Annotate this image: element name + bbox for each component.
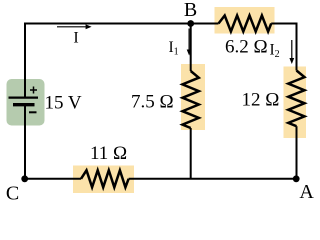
resistor R1 6.2ohm zigzag: [219, 16, 272, 32]
resistor R4 11ohm zigzag: [81, 170, 129, 187]
wire left bottom: node C up to battery - terminal: [24, 105, 26, 179]
svg-text:B: B: [184, 0, 197, 21]
wire R3 bottom lead to node A: [296, 126, 298, 179]
svg-text:C: C: [6, 182, 19, 201]
wire left side and top left (battery + terminal to node B): [25, 24, 191, 98]
node C junction dot: [21, 175, 28, 182]
wire R2 bottom lead to bottom wire: [190, 128, 192, 179]
current arrow I1 (below node B, pointing down): [188, 29, 190, 51]
svg-text:7.5 Ω: 7.5 Ω: [131, 92, 174, 113]
resistor R2 7.5ohm highlight box: [181, 64, 205, 130]
resistor R1 6.2ohm highlight box: [215, 7, 275, 34]
battery V1 highlight box: [7, 79, 45, 126]
wire R1 right lead to top-right corner down to R3: [271, 24, 296, 71]
resistor R3 12ohm zigzag: [288, 71, 304, 127]
svg-text:11 Ω: 11 Ω: [90, 143, 127, 164]
battery V1 negative plate: [13, 103, 35, 106]
svg-text:15 V: 15 V: [45, 93, 82, 114]
current arrow I (top wire, pointing right): [57, 26, 87, 28]
svg-text:I2: I2: [270, 42, 280, 61]
wire node B to R1 left lead: [191, 23, 219, 25]
battery minus sign: [29, 111, 37, 113]
node A junction dot: [293, 175, 300, 182]
svg-text:I: I: [73, 30, 78, 47]
wire bottom left: R4 left lead to node C: [25, 178, 81, 180]
wire bottom right: node A to R4 right lead: [129, 178, 297, 180]
svg-text:I1: I1: [169, 39, 179, 58]
resistor R3 12ohm highlight box: [284, 67, 307, 139]
svg-text:A: A: [299, 181, 314, 201]
battery plus sign: [30, 87, 37, 94]
svg-text:12 Ω: 12 Ω: [242, 90, 280, 111]
battery V1 positive plate: [9, 96, 39, 98]
resistor R2 7.5ohm zigzag: [183, 71, 199, 128]
svg-text:6.2 Ω: 6.2 Ω: [225, 37, 268, 58]
current arrow I2 (right branch, pointing down): [291, 40, 293, 59]
wire middle: node B down to R2: [190, 24, 192, 72]
node B junction dot: [187, 20, 194, 27]
resistor R4 11ohm highlight box: [73, 166, 134, 194]
